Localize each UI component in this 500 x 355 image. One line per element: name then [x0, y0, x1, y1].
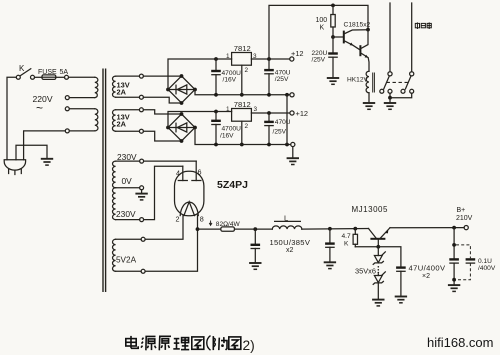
- label 230V (bottom): [116, 209, 136, 219]
- fuse: [42, 75, 56, 80]
- node: bus2 470U junction: [267, 143, 271, 147]
- label 470U/25V #1: [275, 69, 291, 82]
- label 470U/25V #2: [273, 119, 291, 135]
- svg-text:/16V: /16V: [220, 133, 234, 140]
- label 35Vx6: [355, 267, 376, 276]
- ground: zener stack: [372, 300, 384, 306]
- capacitor C8 47U/400V: [396, 266, 406, 296]
- capacitor C1 4700U/16V: [211, 59, 221, 95]
- tube filament: [180, 202, 198, 216]
- label B+ 250V: [456, 207, 473, 222]
- ground: relay coil: [363, 103, 375, 109]
- svg-text:K: K: [320, 25, 325, 32]
- caption 2): [243, 338, 255, 353]
- svg-text:/16V: /16V: [223, 76, 237, 83]
- wire: 13V#1 bottom to bridge1 AC2: [143, 97, 181, 103]
- wire: NC terminals tie to ground: [388, 93, 412, 102]
- svg-text:~: ~: [36, 101, 43, 115]
- capacitor C3 4700U/16V: [211, 112, 221, 145]
- ground: 47U#1: [395, 297, 407, 303]
- svg-text:hifi168.com: hifi168.com: [427, 335, 493, 350]
- fuse FUSE 5A label: [38, 69, 68, 76]
- transistor Q2 C1815: [360, 30, 369, 72]
- node: Q1/Q2 collector junction: [366, 28, 370, 32]
- node: 13V#1 bottom terminal: [139, 95, 143, 99]
- pin label 2: [176, 215, 180, 224]
- node: 13V#2 top terminal: [139, 108, 143, 112]
- pin label 8: [200, 215, 204, 224]
- capacitor C7 150U/385V: [325, 229, 335, 262]
- label 13V 2A (lower): [117, 113, 130, 129]
- resistor R2 82ohm: [221, 227, 235, 231]
- secondary HV winding 230V-0V-230V: [113, 161, 140, 220]
- node: rail 100K junction: [331, 4, 335, 8]
- resistor R1 100K: [331, 5, 335, 37]
- wire: 7812#2 pin2 to ground bus: [240, 121, 244, 146]
- capacitor C10 0.1U/400V (dashed optional): [456, 245, 475, 280]
- wire: bridge2 DC+ to 7812 #2 input: [168, 112, 232, 128]
- node: zener stack top: [376, 245, 380, 249]
- capacitor C6 150U/385V: [251, 229, 261, 262]
- label +12 #1: [291, 49, 304, 58]
- node: primary tap 2: [65, 107, 95, 111]
- node: contact B NO terminal: [401, 89, 405, 93]
- svg-text:2: 2: [176, 215, 180, 224]
- svg-text:+12: +12: [296, 109, 309, 118]
- svg-text:2): 2): [243, 338, 255, 353]
- switch arm A: [384, 76, 390, 89]
- label 220V ~: [33, 94, 53, 115]
- svg-text:/25V: /25V: [273, 129, 287, 136]
- label MJ13005: [352, 205, 388, 214]
- label +12 #2: [296, 109, 309, 118]
- node: primary tap 1: [65, 96, 95, 100]
- node: 220U junction: [0, 0, 1, 1]
- label 0V: [122, 176, 133, 186]
- label 7812 #2: [234, 100, 251, 109]
- node: dashed branch top: [452, 243, 456, 247]
- transformer core: [103, 69, 106, 293]
- svg-text:8: 8: [200, 215, 204, 224]
- label 220U/25V: [312, 50, 328, 64]
- node: 5V bottom terminal: [141, 269, 145, 273]
- label 100 K: [316, 17, 328, 32]
- wire: ground bus 1: [195, 90, 290, 95]
- svg-text:470U: 470U: [275, 119, 291, 126]
- wire: bridge1 DC+ to 7812 #1 input: [168, 59, 232, 90]
- label 5V2A: [116, 256, 137, 265]
- node: line terminal: [65, 75, 69, 79]
- wire: ground link bus1-bus2: [286, 95, 288, 145]
- svg-text:230V: 230V: [117, 152, 137, 162]
- svg-text:210V: 210V: [456, 215, 473, 222]
- node: HV top terminal: [140, 159, 144, 163]
- capacitor C4 470U/25V: [264, 113, 274, 145]
- label 去输出 (to output): [415, 22, 431, 29]
- node: B+ output terminal: [464, 226, 468, 230]
- capacitor C5 220U/25V: [328, 37, 338, 77]
- bridge rectifier D1: [166, 74, 197, 105]
- svg-text:5Z4PJ: 5Z4PJ: [217, 179, 248, 191]
- wire: tube pin8 to 5V bottom: [145, 215, 197, 271]
- svg-text:7812: 7812: [234, 100, 251, 109]
- wire: switch to fuse: [35, 76, 43, 78]
- svg-text:/400V: /400V: [478, 265, 496, 272]
- secondary winding 13V 2A (lower): [112, 110, 139, 131]
- ground: 47U#2: [448, 285, 460, 291]
- label 150U/385V x2: [270, 238, 311, 254]
- secondary winding 5V2A: [113, 239, 142, 271]
- bridge rectifier D2: [166, 112, 197, 143]
- capacitor C2 470U/25V: [264, 59, 274, 95]
- primary winding lower: [95, 109, 98, 131]
- regulator 7812 #1: [232, 53, 252, 66]
- label 4.7 K: [342, 233, 351, 247]
- 理: [174, 338, 180, 340]
- svg-text:K: K: [344, 241, 349, 248]
- wire: tube pin2 to 5V top: [145, 216, 183, 240]
- node: 13V#1 top terminal: [139, 74, 143, 78]
- wire: fuse to terminal: [56, 76, 65, 78]
- wire: HV top to tube pin 6: [144, 160, 197, 162]
- svg-text:×2: ×2: [422, 273, 430, 280]
- pin 2 label U1: [245, 67, 249, 74]
- secondary winding 13V 2A (upper): [113, 76, 140, 97]
- label HK12V: [347, 77, 368, 84]
- pin label 4: [176, 168, 180, 177]
- transistor Q1 C1815: [333, 30, 368, 50]
- label 4700U/16V #1: [222, 70, 242, 83]
- svg-text:2A: 2A: [117, 88, 127, 97]
- node: contact A common: [388, 72, 392, 76]
- svg-text:K: K: [19, 64, 25, 73]
- resistor R3 4.7K: [353, 229, 378, 247]
- switch K: [16, 69, 34, 80]
- (: [207, 336, 211, 351]
- node: primary bottom terminal: [65, 129, 69, 133]
- ground: HV centre tap: [135, 194, 147, 200]
- node: +12 #2 output terminal: [290, 111, 294, 115]
- label 230V (top): [117, 152, 137, 162]
- node: bus2 cap junction: [214, 143, 218, 147]
- svg-text:100: 100: [316, 17, 328, 24]
- wire: bus2 terminal to ground: [292, 147, 294, 158]
- svg-text:4700U: 4700U: [222, 125, 242, 132]
- svg-text:47U/400V: 47U/400V: [409, 263, 447, 272]
- node: bus1 terminal: [290, 93, 294, 97]
- svg-text:MJ13005: MJ13005: [352, 205, 388, 214]
- wire: terminal to primary top: [69, 76, 95, 78]
- wire: primary bottom to plug (neutral): [24, 131, 95, 160]
- pin 1 label U1: [226, 53, 230, 60]
- wire: contact pole B to output: [411, 3, 413, 72]
- label 82R/4W: [209, 221, 240, 229]
- svg-text:4.7: 4.7: [342, 233, 351, 240]
- node: bus2 terminal: [291, 142, 295, 146]
- label 0.1U/400V: [478, 258, 496, 272]
- ground: 220U: [327, 78, 339, 84]
- label 5Z4PJ: [217, 179, 248, 191]
- pin 2 label U2: [245, 123, 249, 130]
- wire: 7812#2 output: [251, 112, 289, 114]
- label L: [284, 214, 288, 223]
- switch arm B: [405, 76, 411, 89]
- 源: [142, 338, 144, 340]
- node: bus1 link junction: [285, 93, 289, 97]
- node: +12 #1 junction: [267, 57, 271, 61]
- 附: [212, 336, 214, 350]
- wire: Q3 emitter to B+: [390, 227, 464, 229]
- node: 150U#1 junction: [253, 227, 257, 231]
- label 47U/400V x2: [409, 263, 447, 280]
- wire: HV bottom to tube pin 4: [144, 166, 183, 219]
- wire: 13V#1 top to bridge1 AC1: [143, 75, 181, 77]
- node: B+ cap junction: [452, 226, 456, 230]
- wire: contact pole A to output: [389, 3, 391, 72]
- AC plug: [4, 160, 25, 175]
- 图: [192, 337, 204, 349]
- wire: +12 rail to top: [269, 5, 368, 59]
- wire: ground bus 2: [195, 128, 291, 145]
- pin 1 label U2: [226, 106, 230, 113]
- wire: choke to MJ13005: [302, 228, 369, 231]
- switch K label: [19, 64, 25, 73]
- svg-text:0.1U: 0.1U: [478, 258, 492, 265]
- gang link (dashed): [387, 81, 411, 83]
- svg-text:x2: x2: [286, 247, 294, 254]
- primary winding upper: [95, 77, 98, 97]
- label 4700U/16V #2: [220, 125, 241, 139]
- pin label 6: [198, 168, 202, 177]
- svg-text:6: 6: [198, 168, 202, 177]
- 原: [159, 336, 171, 350]
- svg-text:C1815x2: C1815x2: [344, 21, 371, 28]
- node: B output junction at pin8: [196, 227, 200, 231]
- node: junction C1 top: [214, 57, 218, 61]
- 电: [126, 339, 136, 346]
- svg-text:3: 3: [254, 106, 258, 113]
- node: dashed branch bottom: [452, 278, 456, 282]
- caption 电源原理图(附图2): [126, 336, 241, 351]
- svg-text:0V: 0V: [122, 176, 133, 186]
- node: +12 #1 output terminal: [290, 57, 294, 61]
- wire: pin8 node to R2: [198, 228, 221, 230]
- ground: relay contacts: [384, 103, 396, 109]
- node: contact A NO terminal: [380, 89, 384, 93]
- svg-text:+12: +12: [291, 49, 304, 58]
- wire: base node to 47U#1: [378, 247, 401, 267]
- svg-text:1: 1: [226, 53, 230, 60]
- wire: switch to plug (live): [7, 77, 16, 159]
- node: HV bottom terminal: [140, 218, 144, 222]
- svg-text:230V: 230V: [116, 209, 136, 219]
- node: contact A NC terminal: [388, 89, 392, 93]
- watermark hifi168.com: [427, 335, 493, 350]
- ground: 150U#2: [324, 262, 336, 268]
- wire: 13V#2 top to bridge2 AC1: [143, 110, 181, 114]
- ground: mains earth: [41, 159, 53, 165]
- wire: B+ to 47U#2: [453, 228, 455, 259]
- node: 150U#2 junction: [328, 227, 332, 231]
- relay coil HK12V: [366, 71, 374, 102]
- wire: 0V tap to ground: [141, 190, 143, 193]
- wire: plug earth pin to ground: [16, 145, 47, 159]
- svg-text:/25V: /25V: [275, 76, 289, 83]
- wire: 13V#2 bottom to bridge2 AC2: [143, 131, 181, 141]
- svg-text:/25V: /25V: [312, 57, 326, 64]
- ground: bus2: [287, 158, 299, 164]
- wire: 7812#1 pin2 to ground bus: [240, 65, 244, 97]
- node: Q3 base network junction: [353, 227, 357, 231]
- zener stack ZD 35Vx6: [373, 247, 385, 299]
- node: bus1 cap junction: [214, 93, 218, 97]
- svg-text:150U/385V: 150U/385V: [270, 238, 311, 247]
- capacitor C9 47U/400V: [449, 258, 459, 284]
- node: +12 #2 junction: [267, 111, 271, 115]
- label C1815x2: [344, 21, 371, 28]
- wire: 7812#1 output: [251, 58, 289, 60]
- tube V1 5Z4PJ envelope: [175, 171, 204, 216]
- svg-text:35Vx6: 35Vx6: [355, 267, 376, 276]
- svg-text:2: 2: [245, 67, 249, 74]
- svg-text:B+: B+: [457, 207, 466, 214]
- svg-text:5V2A: 5V2A: [116, 256, 137, 265]
- svg-text:2: 2: [245, 123, 249, 130]
- node: bus2 link junction: [285, 143, 289, 147]
- node: 5V top terminal: [141, 237, 145, 241]
- regulator 7812 #2: [232, 109, 252, 122]
- tube anode (pin 6): [192, 161, 201, 180]
- svg-text:2A: 2A: [117, 120, 127, 129]
- tube anode (pin 4): [178, 166, 187, 180]
- node: Q1 base junction: [331, 35, 335, 39]
- ground: 150U#1: [249, 263, 261, 269]
- node: contact B common: [410, 72, 414, 76]
- node: bus1 470U junction: [267, 93, 271, 97]
- svg-text:1: 1: [226, 106, 230, 113]
- pin 3 label U2: [254, 106, 258, 113]
- transistor Q3 MJ13005: [369, 228, 391, 247]
- label 7812 #1: [234, 44, 251, 53]
- svg-text:4: 4: [176, 168, 180, 177]
- choke L: [272, 221, 302, 229]
- 图: [229, 337, 241, 349]
- svg-text:HK12V: HK12V: [347, 77, 368, 84]
- svg-text:7812: 7812: [234, 44, 251, 53]
- node: 13V#2 bottom terminal: [139, 129, 143, 133]
- pin 3 label U1: [253, 53, 257, 60]
- node: junction C3 top: [214, 110, 218, 114]
- node: HV centre tap 0V: [140, 186, 144, 190]
- wire: R2 to choke: [235, 228, 273, 230]
- label 13V 2A (upper): [117, 81, 130, 97]
- node: contact B NC terminal: [410, 89, 414, 93]
